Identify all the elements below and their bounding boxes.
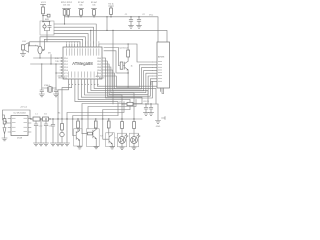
wire drop x67 bbox=[66, 119, 68, 143]
node R1 junction bbox=[42, 15, 43, 16]
wire fan pin2 left bbox=[62, 82, 72, 119]
power VCC bar R2 bbox=[79, 9, 84, 10]
wire nested top bundle k4 bbox=[40, 37, 85, 46]
node L1 right bbox=[40, 118, 41, 119]
node bus x31 bbox=[30, 118, 31, 119]
U2 left pin stubs bbox=[8, 119, 11, 133]
switch S1 button bbox=[43, 25, 46, 28]
svg-text:ADC6: ADC6 bbox=[99, 76, 105, 79]
IC U1 ATMega88 bbox=[63, 47, 102, 79]
capacitor C4 bbox=[40, 88, 44, 94]
resistor R13 bbox=[133, 122, 136, 129]
resistor RPU1 bbox=[63, 10, 66, 16]
ground C9 bbox=[148, 113, 153, 116]
diode D1 bbox=[43, 117, 49, 121]
svg-text:DIL08: DIL08 bbox=[17, 138, 23, 140]
wire U3 pin62 feed bbox=[128, 44, 152, 62]
wire Q1 bottom bbox=[118, 72, 128, 74]
ground D3 bbox=[120, 147, 125, 149]
U2 right pin stubs bbox=[28, 119, 31, 133]
wire fan pin4 bbox=[78, 82, 130, 110]
wire D6 link bbox=[3, 115, 5, 119]
U3 bottom stub bbox=[151, 82, 164, 94]
wire S1 bottom bbox=[45, 31, 50, 42]
svg-text:1k: 1k bbox=[131, 65, 133, 67]
LED D3 bbox=[117, 133, 126, 147]
IC U2 bbox=[11, 116, 28, 136]
svg-text:GND VCC: GND VCC bbox=[58, 77, 68, 79]
power VCC bar RPU bbox=[63, 9, 71, 10]
wire speaker to cap bbox=[29, 46, 39, 47]
power flag bbox=[162, 117, 166, 120]
wire stair r4 bbox=[67, 102, 124, 119]
resistor R9 bbox=[127, 50, 130, 57]
IC U3 bbox=[157, 42, 170, 88]
resistor R10 base bbox=[120, 62, 123, 69]
transistor Q2 bbox=[74, 129, 83, 146]
wire U loop pin73 bbox=[105, 68, 153, 89]
svg-text:10k 10k: 10k 10k bbox=[63, 5, 70, 7]
ground R5 bbox=[59, 143, 64, 146]
U1 left pin stubs bbox=[60, 58, 63, 76]
U1 bottom pin stubs bbox=[69, 79, 98, 82]
resistor R12 bbox=[121, 122, 124, 129]
svg-text:ATM88: ATM88 bbox=[158, 56, 165, 59]
resistor R7 base bbox=[87, 132, 92, 135]
capacitor C12 bbox=[51, 119, 55, 143]
transistor Q1 bbox=[125, 57, 129, 73]
wire fan pin7 bbox=[88, 82, 134, 119]
capacitor C7 bbox=[48, 23, 51, 30]
ground x41 bbox=[38, 143, 43, 146]
wire audio line2 bbox=[31, 55, 61, 65]
LED D4 bbox=[129, 133, 138, 147]
wire drop x58 bbox=[57, 119, 59, 143]
diode D7 small bbox=[43, 15, 47, 17]
U1 top pin stubs bbox=[67, 44, 99, 47]
ground D4 bbox=[132, 147, 137, 149]
wire nested top bundle k3 bbox=[54, 34, 88, 44]
wire bottom rail1 bbox=[122, 103, 158, 105]
inductor L1 bbox=[33, 117, 40, 121]
wire nested top bundle k2 through to U3 bbox=[54, 30, 167, 44]
wire U loop pin67 bbox=[105, 67, 153, 93]
U1 right pin stubs bbox=[102, 58, 105, 76]
wire power top line bbox=[3, 110, 31, 120]
wire xtal pin1 bbox=[56, 64, 60, 88]
node rail1 bbox=[145, 103, 146, 104]
capacitor C9 bbox=[149, 104, 153, 113]
ground C12 bbox=[50, 143, 55, 146]
diode D6 left bbox=[3, 124, 6, 138]
ground C8 bbox=[143, 113, 148, 116]
svg-text:10k: 10k bbox=[79, 5, 82, 7]
wire nested top bundle k0 bbox=[54, 17, 96, 44]
U3 left pin labels bbox=[158, 62, 162, 82]
resistor R4 bbox=[110, 8, 113, 14]
node cap right bbox=[42, 49, 44, 51]
power VCC bar R1 bbox=[41, 5, 46, 7]
wire U2 pin left link bbox=[5, 121, 9, 123]
wire nested top bundle k1 bbox=[54, 27, 94, 44]
resistor R3 bbox=[93, 10, 96, 16]
wire U loop pin64 bbox=[105, 64, 153, 94]
wire xtal pin2 bbox=[41, 64, 43, 88]
resistor R2 bbox=[80, 10, 83, 16]
wire stair r3 bbox=[103, 110, 130, 140]
ground C5 bbox=[53, 94, 58, 97]
wire Q1 emitter to loop bbox=[127, 73, 129, 87]
wire speaker line 2 bbox=[29, 42, 81, 46]
resistor RPU2 bbox=[67, 10, 70, 16]
node Q1 emitter bbox=[127, 72, 128, 73]
ground C10 bbox=[33, 143, 38, 146]
LED D2 bbox=[60, 132, 64, 136]
capacitor C11 bbox=[44, 119, 48, 143]
wire U loop pin58 bbox=[105, 58, 153, 98]
wire stair r1 bbox=[82, 104, 142, 134]
wire D3 down bbox=[121, 143, 123, 147]
ground Q3 bbox=[94, 146, 99, 148]
wire R1 down bbox=[42, 14, 44, 21]
wire audio line1 bbox=[34, 54, 61, 58]
transistor Q3 bbox=[86, 129, 99, 147]
U1 top pin labels outside bbox=[67, 41, 99, 43]
wire transistor feed b bbox=[104, 48, 119, 66]
wire long vertical feed bbox=[112, 30, 114, 104]
wire drop x41 bbox=[40, 119, 42, 143]
capacitor C5 bbox=[54, 88, 58, 94]
svg-text:C8 C9: C8 C9 bbox=[143, 101, 150, 103]
ground speaker bbox=[20, 50, 25, 56]
wire transistor feed a bbox=[99, 43, 128, 45]
crystal X1 bbox=[48, 87, 53, 92]
wire transistor feed c bbox=[104, 51, 118, 73]
resistor R1 bbox=[42, 7, 45, 14]
ground Q4 bbox=[110, 147, 115, 149]
svg-text:+5V out: +5V out bbox=[20, 106, 27, 109]
ground C2 bbox=[137, 25, 142, 28]
svg-text:10k: 10k bbox=[92, 5, 95, 7]
svg-text:GND: GND bbox=[156, 126, 161, 128]
U1 bottom pin labels inside bbox=[69, 72, 98, 78]
U1 left pin arrows bbox=[61, 57, 63, 76]
wire speaker line 1 bbox=[44, 39, 82, 44]
wire xtal link bbox=[42, 87, 56, 89]
svg-text:TXD: TXD bbox=[55, 61, 60, 63]
ground rail1 end bbox=[155, 104, 160, 123]
resistor R5 bbox=[61, 124, 64, 131]
svg-text:ATMega88: ATMega88 bbox=[72, 61, 93, 66]
svg-text:R4 1k: R4 1k bbox=[108, 3, 113, 5]
svg-text:IC2 MC34063: IC2 MC34063 bbox=[13, 113, 26, 115]
wire fan pin3 bbox=[75, 82, 118, 116]
ground Q2 bbox=[77, 147, 82, 149]
diode D5 series bbox=[127, 102, 133, 105]
svg-text:VCC1: VCC1 bbox=[41, 2, 47, 4]
wire VCC bus top bbox=[65, 17, 159, 42]
wire fan bottom pin1 left bbox=[58, 82, 69, 119]
wire fan pin6 bbox=[85, 82, 123, 119]
node S1 top bbox=[42, 21, 43, 22]
power VCC bar R3 bbox=[92, 9, 97, 10]
resistor R6 bbox=[77, 121, 80, 128]
power VCC bar R4 bbox=[109, 6, 114, 8]
wire U loop pin70 bbox=[105, 70, 153, 91]
resistor R14 left bbox=[3, 119, 6, 125]
wire fan pin8 bbox=[91, 82, 148, 104]
capacitor C3 electrolytic bbox=[38, 46, 42, 54]
wire fan pin5 bbox=[81, 82, 142, 104]
node bus x107 bbox=[106, 16, 107, 17]
U2 pin labels bbox=[12, 118, 27, 132]
capacitor C10 bbox=[34, 121, 38, 143]
U1 top pin labels inside bbox=[67, 48, 99, 55]
svg-text:VCC: VCC bbox=[149, 15, 154, 17]
wire D4 down bbox=[133, 143, 135, 147]
ground x67 bbox=[64, 143, 69, 146]
wire fan pin10 bbox=[97, 82, 163, 94]
wire U loop pin61 bbox=[105, 61, 153, 96]
wire fan pin9 bbox=[94, 82, 156, 104]
transistor Q4 bbox=[106, 133, 115, 147]
ground D6 bbox=[2, 138, 7, 141]
wire bottom bus main bbox=[31, 118, 142, 120]
node D1 right bbox=[49, 118, 50, 119]
wire stair r5 bbox=[73, 116, 118, 136]
ground C4 bbox=[39, 94, 44, 97]
wire U loop pin76 bbox=[105, 65, 153, 87]
ground C11 bbox=[43, 143, 48, 146]
ground C1 bbox=[129, 25, 134, 28]
resistor R8 bbox=[94, 121, 97, 128]
node R2 bus bbox=[80, 16, 81, 17]
ground x58 bbox=[55, 143, 60, 146]
wire bus drop to right bbox=[106, 17, 108, 31]
wire stair r2 bbox=[88, 99, 136, 128]
node R3 bus bbox=[93, 16, 94, 17]
resistor R11 bbox=[107, 121, 110, 128]
U3 left pin stubs bbox=[153, 62, 158, 82]
node R4 bus bbox=[110, 16, 111, 17]
wire RPU to bus bbox=[65, 15, 69, 17]
node pin number specks bbox=[69, 83, 99, 86]
